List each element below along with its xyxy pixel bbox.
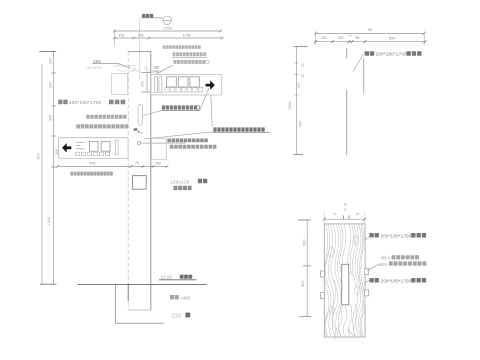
right sign panel outline [151, 74, 222, 95]
small note 5 at board bottom [348, 328, 356, 336]
foundation outline [116, 284, 164, 323]
svg-text:Φ6.4: Φ6.4 [381, 255, 391, 260]
leader from bolt area to callout [144, 132, 213, 139]
svg-text:150: 150 [155, 161, 161, 165]
left panel character squares [90, 141, 98, 151]
svg-text:1700: 1700 [163, 27, 171, 31]
svg-text:70: 70 [135, 161, 139, 165]
bolt note line 2 [170, 145, 174, 149]
acid-wash note with underline and leader to arrow [161, 88, 209, 110]
left panel black arrow [62, 143, 71, 153]
post: right edge [150, 52, 152, 310]
svg-text:150: 150 [140, 81, 144, 87]
post centerline [139, 18, 141, 79]
svg-text:200*180*1700: 200*180*1700 [381, 278, 412, 283]
wood section: left height dimension [298, 220, 311, 318]
svg-text:500: 500 [303, 240, 307, 246]
cross-beam bracket on right of post [151, 138, 166, 159]
post cross-section square 120x120 [133, 176, 147, 190]
svg-text:150: 150 [338, 36, 344, 40]
side view: post edge line upper stub [346, 48, 348, 58]
plate slot in wood board [342, 264, 349, 305]
svg-text:1500: 1500 [47, 217, 51, 225]
top dimension line (overall 1700) [113, 27, 222, 46]
120x120 tube label [170, 179, 208, 190]
svg-text:600: 600 [36, 153, 40, 159]
plate label 200*180*1700 (top) [365, 51, 422, 56]
svg-text:1000: 1000 [288, 102, 292, 110]
side view: left height dimension chain [288, 47, 308, 155]
svg-text:±0.00: ±0.00 [161, 275, 173, 280]
svg-text:500: 500 [299, 121, 303, 127]
right panel black arrow [206, 80, 215, 90]
svg-text:50: 50 [301, 74, 305, 78]
tiny weld marks near post [134, 128, 143, 133]
svg-text:500: 500 [301, 281, 305, 287]
side view: segment dimension line [314, 34, 427, 44]
post: top edge [128, 51, 151, 53]
left sign panel outline [58, 138, 128, 159]
plate label 200*180*1700 (section, upper) [365, 233, 426, 240]
rivet note line 2 with leader [367, 261, 427, 270]
top dimension line (450/700/1750 segments) [113, 33, 223, 39]
svg-text:200: 200 [49, 82, 53, 88]
post: buried dark segment [127, 284, 129, 302]
svg-text:70: 70 [356, 212, 360, 216]
ground line [78, 283, 207, 285]
edge bolts left [320, 271, 324, 299]
side view: plate edge line [363, 58, 365, 93]
svg-text:1750: 1750 [183, 33, 191, 37]
svg-text:450: 450 [118, 33, 124, 37]
left panel mounting slat [115, 140, 118, 155]
svg-text:C20: C20 [172, 313, 181, 319]
svg-text:50: 50 [368, 28, 372, 32]
left inner height dimension chain [39, 51, 59, 284]
svg-text:200*180*1700: 200*180*1700 [381, 233, 412, 238]
note block (3 lines) above right panel [156, 45, 209, 74]
wood section: top mini dimensions [323, 203, 366, 224]
left panel small text marks [76, 142, 85, 149]
svg-text:120x120: 120x120 [170, 179, 190, 185]
side view: plate label leader [353, 52, 365, 72]
right panel small character cells [165, 88, 169, 92]
bolt spec note line 1 (left) [86, 115, 90, 119]
right panel mounting slats [155, 77, 158, 93]
post material label (wood-grain steel tube) [58, 100, 125, 106]
embedment note (≈450) [170, 295, 191, 300]
svg-text:150: 150 [321, 36, 327, 40]
small dark size labels above panel [152, 66, 159, 74]
leader from slot to acid-wash note [143, 111, 161, 116]
left panel small character cells [75, 152, 79, 156]
svg-text:20: 20 [344, 208, 348, 212]
svg-text:200*160*1700: 200*160*1700 [69, 100, 102, 105]
svg-text:400: 400 [89, 162, 95, 166]
edge bolts right [365, 269, 369, 296]
svg-text:200*180*1700: 200*180*1700 [376, 52, 407, 57]
wind load note 1kN with leader [92, 59, 130, 69]
concrete note C20 [172, 313, 190, 320]
sign panel continuation behind post [112, 74, 128, 95]
rivet note line 1 [381, 255, 419, 260]
leader from arrow down to callout [211, 96, 213, 127]
svg-text:90: 90 [344, 203, 348, 207]
svg-text:25: 25 [134, 128, 138, 132]
callout label: sign plate name (标志牌) [141, 14, 162, 18]
side view: top overall dimension [314, 28, 425, 45]
slotted hole on post [138, 105, 143, 126]
post label 200*180*1700 (section, lower) [365, 278, 426, 283]
svg-text:350: 350 [49, 115, 53, 121]
svg-text:700: 700 [137, 33, 143, 37]
post: left edge (dashed) [127, 52, 129, 310]
svg-text:M10: M10 [379, 262, 388, 267]
right panel character squares [167, 77, 177, 87]
shrub / grass band sketch [86, 65, 163, 72]
wood board with grain [324, 224, 365, 341]
detail bubble circle [163, 16, 172, 24]
side view: post edge line lower [346, 90, 348, 155]
callout note with underline (see detail A) [213, 127, 270, 132]
svg-text:200: 200 [49, 58, 53, 64]
bottom dimension under left panel (400/70/150) [56, 161, 168, 168]
svg-text:≈450: ≈450 [180, 295, 190, 300]
ground level label ±0.00 [159, 275, 197, 280]
bolt note line 1 [167, 139, 171, 143]
svg-text:70: 70 [333, 212, 337, 216]
bolt circle with leader [137, 142, 186, 145]
svg-text:85: 85 [356, 36, 360, 40]
svg-text:20: 20 [348, 34, 352, 38]
bolt spec note line 2 (left) [76, 124, 80, 128]
svg-text:500: 500 [389, 36, 395, 40]
svg-text:150: 150 [297, 83, 301, 89]
left outer height dimension line [36, 64, 51, 284]
svg-text:50: 50 [301, 63, 305, 67]
spray-coating note under dimension [70, 172, 73, 176]
panel height dimension 150 [140, 72, 150, 92]
